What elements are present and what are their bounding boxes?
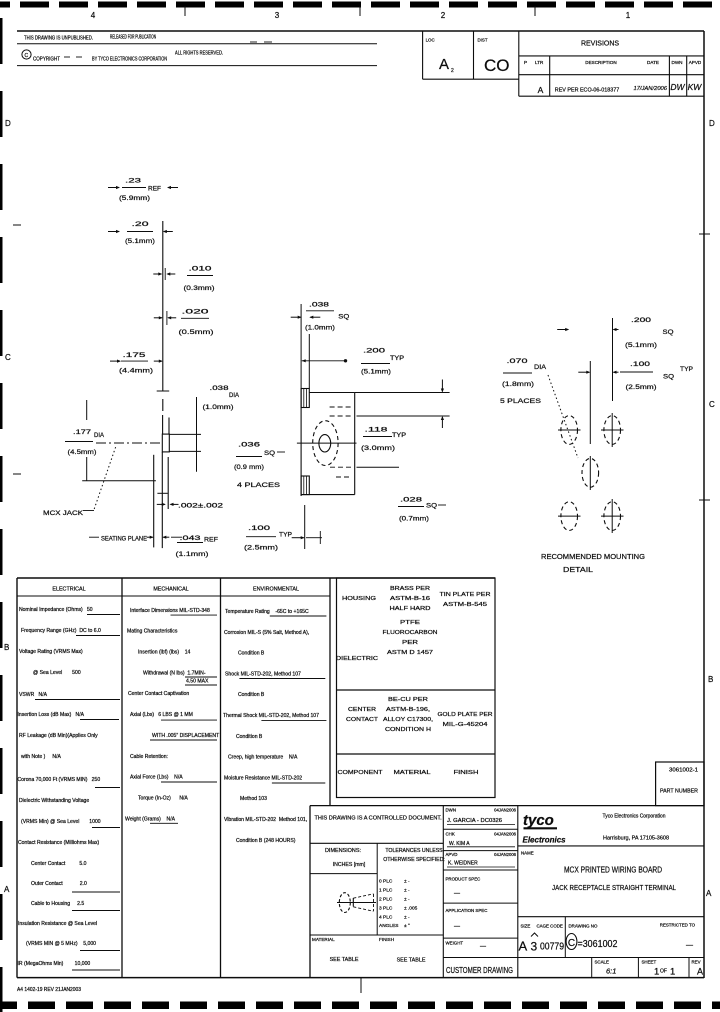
svg-text:TOLERANCES UNLESS: TOLERANCES UNLESS xyxy=(385,848,443,854)
svg-text:A: A xyxy=(439,56,449,73)
svg-text:(4.4mm): (4.4mm) xyxy=(119,368,153,375)
svg-text:SEE TABLE: SEE TABLE xyxy=(330,957,359,963)
svg-text:Axial Force (Lbs) N/A: Axial Force (Lbs) N/A xyxy=(130,775,183,781)
svg-text:DIMENSIONS:: DIMENSIONS: xyxy=(325,848,361,854)
svg-text:SIZE: SIZE xyxy=(521,924,531,929)
svg-text:SQ: SQ xyxy=(264,450,275,457)
spec table outer/column lines xyxy=(17,577,495,579)
svg-text:—: — xyxy=(454,891,460,897)
svg-text:SEE TABLE: SEE TABLE xyxy=(397,958,426,964)
svg-text:.20: .20 xyxy=(132,221,149,228)
svg-text:REV: REV xyxy=(692,960,701,965)
svg-text:1: 1 xyxy=(654,967,659,978)
svg-text:3: 3 xyxy=(531,940,538,954)
svg-text:DETAIL: DETAIL xyxy=(563,565,593,574)
middle view: hidden + solid line .118 lower xyxy=(330,415,351,417)
left view: pin below nut xyxy=(161,452,163,509)
svg-text:Cable to Housing 2.5: Cable to Housing 2.5 xyxy=(31,901,84,907)
svg-text:REF: REF xyxy=(204,537,218,544)
svg-text:WEIGHT: WEIGHT xyxy=(446,941,464,946)
svg-text:SQ: SQ xyxy=(663,374,674,381)
svg-text:(VRMS MIN @ 5 MHz) 5,000: (VRMS MIN @ 5 MHz) 5,000 xyxy=(26,941,96,947)
left view: dash-dot centerline horizontal xyxy=(96,442,162,444)
svg-text:PART NUMBER: PART NUMBER xyxy=(660,789,698,795)
middle view: pin edge extension lines xyxy=(300,304,302,389)
middle view: extension line top xyxy=(355,392,450,394)
svg-text:COPYRIGHT: COPYRIGHT xyxy=(33,57,61,63)
svg-text:Moisture Resistance MIL-STD-20: Moisture Resistance MIL-STD-202 xyxy=(224,775,302,781)
svg-text:SQ: SQ xyxy=(663,329,674,336)
material / finish cells xyxy=(310,934,443,936)
svg-text:RF Leakage (dB Min)(Applies On: RF Leakage (dB Min)(Applies Only xyxy=(19,733,98,739)
svg-text:CAGE CODE: CAGE CODE xyxy=(537,924,563,929)
right view: hole top-left xyxy=(561,416,578,445)
scan border dashes left xyxy=(0,18,3,64)
svg-text:APPLICATION SPEC: APPLICATION SPEC xyxy=(446,908,488,913)
left view: hex nut cross-section xyxy=(162,434,169,452)
part number box xyxy=(656,762,704,806)
svg-text:OTHERWISE SPECIFIED:: OTHERWISE SPECIFIED: xyxy=(383,857,445,863)
svg-text:.100: .100 xyxy=(248,525,270,532)
svg-text:W. KIM A: W. KIM A xyxy=(449,841,470,847)
svg-text:TIN PLATE PER: TIN PLATE PER xyxy=(440,592,491,598)
svg-text:00779: 00779 xyxy=(540,942,564,953)
svg-text:MATERIAL: MATERIAL xyxy=(394,770,432,776)
svg-text:PER: PER xyxy=(402,640,418,646)
svg-text:Condition B: Condition B xyxy=(238,651,265,657)
svg-text:17/JAN/2006: 17/JAN/2006 xyxy=(633,86,667,92)
svg-text:Vibration MIL-STD-202 Method: Vibration MIL-STD-202 Method 101, xyxy=(224,817,307,823)
svg-text:DIA: DIA xyxy=(229,392,239,399)
svg-text:Temperature Rating -65C to: Temperature Rating -65C to +165C xyxy=(225,609,309,615)
svg-text:JACK RECEPTACLE STRAIGHT TERMI: JACK RECEPTACLE STRAIGHT TERMINAL xyxy=(552,883,676,892)
svg-text:GOLD PLATE PER: GOLD PLATE PER xyxy=(438,712,493,718)
svg-text:.002±.002: .002±.002 xyxy=(178,503,224,510)
svg-text:HALF HARD: HALF HARD xyxy=(390,606,431,612)
svg-text:Method 103: Method 103 xyxy=(240,796,267,802)
left view: dim .002 +/- .002 xyxy=(157,503,165,505)
svg-text:± °: ± ° xyxy=(404,923,410,929)
svg-text:Voltage Rating (VRMS Max): Voltage Rating (VRMS Max) xyxy=(19,649,83,655)
svg-text:ALLOY C17300,: ALLOY C17300, xyxy=(383,717,433,723)
right view: dim .200 SQ (5.1mm) xyxy=(557,329,568,331)
svg-text:Center Contact 5.0: Center Contact 5.0 xyxy=(31,861,87,867)
svg-text:ENVIRONMENTAL: ENVIRONMENTAL xyxy=(253,587,299,593)
svg-text:CHK: CHK xyxy=(446,832,455,837)
svg-text:5 PLACES: 5 PLACES xyxy=(500,398,542,405)
svg-text:Interface Dimensions MIL-STD-3: Interface Dimensions MIL-STD-348 xyxy=(130,608,210,614)
svg-text:NAME: NAME xyxy=(521,851,534,856)
svg-text:INCHES [mm]: INCHES [mm] xyxy=(333,862,366,868)
svg-text:BRASS PER: BRASS PER xyxy=(390,586,430,592)
svg-text:(0.3mm): (0.3mm) xyxy=(184,285,215,292)
svg-text:Condition B: Condition B xyxy=(238,692,265,698)
middle view: bottom pin through PCB xyxy=(301,476,309,495)
svg-text:TYP: TYP xyxy=(680,366,693,373)
svg-text:Condition B: Condition B xyxy=(236,734,263,740)
svg-text:.118: .118 xyxy=(365,427,388,434)
svg-text:RECOMMENDED MOUNTING: RECOMMENDED MOUNTING xyxy=(541,552,645,561)
svg-text:.036: .036 xyxy=(238,442,260,449)
middle view: center socket ellipse xyxy=(319,435,331,452)
svg-text:Center Contact Captivation: Center Contact Captivation xyxy=(128,691,189,697)
svg-text:(3.0mm): (3.0mm) xyxy=(361,445,395,452)
svg-text:Nominal Impedance (Ohms) 50: Nominal Impedance (Ohms) 50 xyxy=(19,607,93,613)
SEATING PLANE label and dim .043 REF xyxy=(89,536,99,538)
svg-text:(0.5mm): (0.5mm) xyxy=(179,329,214,336)
scan border dashes bottom xyxy=(0,1002,17,1010)
right view: dim .100 SQ TYP (2.5mm) xyxy=(578,371,589,373)
svg-text:C: C xyxy=(709,400,715,409)
svg-text:P: P xyxy=(524,60,527,65)
middle view: dim .118 TYP (3.0mm) arrows xyxy=(441,380,443,392)
svg-text:TYP: TYP xyxy=(390,355,404,362)
svg-text:Insertion Loss (dB Max) N/A: Insertion Loss (dB Max) N/A xyxy=(18,712,85,718)
svg-text:VSWR N/A: VSWR N/A xyxy=(19,692,48,698)
svg-text:FINISH: FINISH xyxy=(454,770,479,776)
svg-text:.100: .100 xyxy=(630,361,650,368)
middle view: dim .200 TYP (5.1mm) xyxy=(304,360,347,362)
svg-text:APVD: APVD xyxy=(689,60,702,65)
svg-text:Mating Characteristics: Mating Characteristics xyxy=(127,629,178,635)
svg-text:3 PLC: 3 PLC xyxy=(379,905,393,911)
svg-text:04JAN2006: 04JAN2006 xyxy=(494,852,517,857)
svg-text:TYP: TYP xyxy=(279,532,292,539)
svg-text:1 PLC: 1 PLC xyxy=(379,888,393,894)
title block outer xyxy=(310,805,704,807)
svg-text:D: D xyxy=(709,119,715,128)
svg-text:@ Sea Level 500: @ Sea Level 500 xyxy=(33,670,81,676)
svg-text:SQ: SQ xyxy=(338,314,349,321)
svg-text:Tyco Electronics Corporation: Tyco Electronics Corporation xyxy=(603,814,666,820)
svg-text:PRODUCT SPEC: PRODUCT SPEC xyxy=(446,877,481,882)
svg-text:CENTER: CENTER xyxy=(348,707,376,713)
header: copyright row xyxy=(22,50,31,59)
svg-text:(1.1mm): (1.1mm) xyxy=(176,551,209,558)
svg-text:.038: .038 xyxy=(309,302,329,309)
svg-text:DIA: DIA xyxy=(94,432,104,439)
svg-text:C: C xyxy=(25,53,29,59)
dimensions cell xyxy=(376,843,378,935)
svg-text:LTR: LTR xyxy=(535,60,544,65)
left view: seating plane line xyxy=(82,480,156,482)
svg-text:Contact Resistance (Milliohms: Contact Resistance (Milliohms Max) xyxy=(18,840,100,846)
svg-text:± -: ± - xyxy=(404,888,410,894)
svg-text:D: D xyxy=(5,119,11,128)
svg-text:(4.5mm): (4.5mm) xyxy=(68,449,97,456)
svg-text:=3061002: =3061002 xyxy=(578,939,618,950)
svg-text:DW: DW xyxy=(670,82,685,92)
left view: dim .038 DIA leader xyxy=(169,433,201,435)
svg-text:DATE: DATE xyxy=(647,60,659,65)
svg-text:DWN: DWN xyxy=(446,808,457,813)
left view: body outline xyxy=(153,455,155,548)
revisions block box lines xyxy=(422,31,424,79)
svg-text:(5.9mm): (5.9mm) xyxy=(119,195,150,202)
drawing frame bottom xyxy=(17,977,704,979)
scan border dashes top xyxy=(0,2,10,8)
svg-text:C: C xyxy=(5,353,11,362)
svg-text:4 PLC: 4 PLC xyxy=(379,914,393,920)
svg-text:Thermal Shock MIL-STD-202, Met: Thermal Shock MIL-STD-202, Method 107 xyxy=(223,713,319,719)
svg-text:MCX PRINTED WIRING BOARD: MCX PRINTED WIRING BOARD xyxy=(564,866,662,875)
svg-text:2: 2 xyxy=(451,68,454,74)
svg-text:B: B xyxy=(708,675,713,684)
svg-text:MIL-G-45204: MIL-G-45204 xyxy=(443,722,489,728)
svg-text:Axial (Lbs) 6 LBS @ 1 MM: Axial (Lbs) 6 LBS @ 1 MM xyxy=(130,712,193,718)
svg-text:4.50 MAX: 4.50 MAX xyxy=(186,679,209,685)
svg-text:ASTM-B-545: ASTM-B-545 xyxy=(443,602,487,608)
zone ticks left/right xyxy=(13,224,21,226)
svg-text:1: 1 xyxy=(670,967,675,978)
svg-text:MATERIAL: MATERIAL xyxy=(312,937,335,942)
svg-text:ELECTRICAL: ELECTRICAL xyxy=(52,587,85,593)
signature column rows xyxy=(443,828,518,830)
materials table box xyxy=(337,578,496,798)
svg-text:(5.1mm): (5.1mm) xyxy=(625,342,657,349)
svg-text:.175: .175 xyxy=(123,352,146,359)
right view: hole bottom-right xyxy=(604,502,621,531)
svg-text:MECHANICAL: MECHANICAL xyxy=(153,587,188,593)
svg-text:FLUOROCARBON: FLUOROCARBON xyxy=(383,630,438,636)
svg-text:(1.0mm): (1.0mm) xyxy=(305,325,335,332)
svg-text:Torque (In-Oz) N/A: Torque (In-Oz) N/A xyxy=(138,796,188,802)
svg-text:(1.8mm): (1.8mm) xyxy=(502,381,534,388)
third angle projection symbol xyxy=(339,893,350,913)
svg-text:CONDITION H: CONDITION H xyxy=(385,727,431,733)
drawing frame right xyxy=(703,31,705,978)
svg-text:.028: .028 xyxy=(400,497,422,504)
svg-text:A: A xyxy=(706,889,712,898)
svg-text:RESTRICTED TO: RESTRICTED TO xyxy=(660,923,696,928)
svg-text:.23: .23 xyxy=(125,178,141,185)
svg-text:—: — xyxy=(480,944,486,950)
svg-text:A: A xyxy=(4,885,10,894)
svg-text:DIST: DIST xyxy=(478,38,488,43)
svg-text:PTFE: PTFE xyxy=(400,620,420,626)
svg-text:± -: ± - xyxy=(404,879,410,885)
svg-text:ANGLES: ANGLES xyxy=(379,923,398,929)
svg-text:A: A xyxy=(519,939,528,954)
svg-text:04JAN2006: 04JAN2006 xyxy=(494,808,517,813)
svg-text:.020: .020 xyxy=(182,309,209,316)
svg-text:A: A xyxy=(538,85,544,95)
svg-text:Weight (Grams) N/A: Weight (Grams) N/A xyxy=(125,817,176,823)
svg-text:Condition B (248 HOURS): Condition B (248 HOURS) xyxy=(236,838,296,844)
svg-text:DWN: DWN xyxy=(672,60,683,65)
svg-text:.043: .043 xyxy=(180,535,201,542)
svg-text:± -: ± - xyxy=(404,897,410,903)
svg-text:FINISH: FINISH xyxy=(379,937,394,942)
svg-text:.200: .200 xyxy=(363,348,385,355)
zone ticks top xyxy=(184,6,186,16)
middle view: top pin through PCB xyxy=(301,389,309,408)
svg-text:(5.1mm): (5.1mm) xyxy=(361,369,391,376)
svg-text:Corrosion MIL-S (5% Salt, Meth: Corrosion MIL-S (5% Salt, Method A), xyxy=(224,630,309,636)
svg-text:CO: CO xyxy=(484,56,510,75)
svg-text:2 PLC: 2 PLC xyxy=(379,897,393,903)
svg-text:OF: OF xyxy=(660,969,667,975)
svg-text:ASTM D 1457: ASTM D 1457 xyxy=(387,650,433,656)
left view: dim .177 DIA (4.5mm) xyxy=(86,400,88,420)
svg-text:with Note ) N/A: with Note ) N/A xyxy=(21,754,62,760)
svg-text:.038: .038 xyxy=(210,385,229,392)
drawing frame top xyxy=(17,30,704,32)
svg-text:ASTM-B-196,: ASTM-B-196, xyxy=(386,707,430,713)
svg-text:Cable Retention:: Cable Retention: xyxy=(130,754,168,760)
left view: terminal pin xyxy=(162,415,164,434)
svg-text:MCX JACK: MCX JACK xyxy=(43,510,84,517)
svg-text:1: 1 xyxy=(626,11,631,20)
svg-text:BE-CU PER: BE-CU PER xyxy=(388,697,428,703)
customer drawing / scale row xyxy=(443,957,704,959)
svg-text:DIELECTRIC: DIELECTRIC xyxy=(336,656,378,662)
left view: terminal centerline xyxy=(162,221,164,391)
middle view: centerline through hole xyxy=(297,442,357,444)
svg-text:BY TYCO ELECTRONICS CORPORATIO: BY TYCO ELECTRONICS CORPORATION xyxy=(92,57,167,63)
right view: hole bottom-left xyxy=(561,502,578,531)
svg-text:THIS DRAWING IS UNPUBLISHED.: THIS DRAWING IS UNPUBLISHED. xyxy=(24,36,93,42)
svg-text:(2.5mm): (2.5mm) xyxy=(626,384,657,391)
svg-text:A: A xyxy=(697,967,703,977)
svg-text:IR (MegaOhms Min) 10,00: IR (MegaOhms Min) 10,000 xyxy=(18,961,91,967)
middle view: body outline xyxy=(309,392,354,394)
svg-text:J. GARCIA - DC0326: J. GARCIA - DC0326 xyxy=(447,818,502,824)
svg-text:Insertion (lbf) (lbs) 14: Insertion (lbf) (lbs) 14 xyxy=(138,650,191,656)
svg-text:—: — xyxy=(686,942,693,949)
right view: hole center xyxy=(582,458,599,487)
svg-text:REV PER ECO-06-018377: REV PER ECO-06-018377 xyxy=(555,88,619,94)
svg-text:.200: .200 xyxy=(631,317,651,324)
svg-text:Creep, high temperature N/A: Creep, high temperature N/A xyxy=(228,755,298,761)
svg-text:SEATING PLANE: SEATING PLANE xyxy=(101,536,147,543)
svg-text:K. WEIDNER: K. WEIDNER xyxy=(448,861,478,867)
svg-text:ALL RIGHTS RESERVED.: ALL RIGHTS RESERVED. xyxy=(175,51,223,57)
svg-text:A4 1402-19 REV 21JAN2003: A4 1402-19 REV 21JAN2003 xyxy=(17,987,81,993)
tyco electronics logo cell xyxy=(518,845,704,847)
svg-text:WITH .005" DISPLACEMENT: WITH .005" DISPLACEMENT xyxy=(152,733,219,739)
svg-text:± .005: ± .005 xyxy=(404,905,418,911)
svg-text:(2.5mm): (2.5mm) xyxy=(244,545,278,552)
svg-text:(VRMS Min) @ Sea Level 1: (VRMS Min) @ Sea Level 1000 xyxy=(21,819,101,825)
svg-text:DRAWING NO: DRAWING NO xyxy=(569,924,598,929)
middle view: hidden hole ellipse xyxy=(313,421,338,466)
svg-text:DESCRIPTION: DESCRIPTION xyxy=(585,60,616,65)
middle view: hidden lines xyxy=(330,406,351,408)
svg-text:.010: .010 xyxy=(189,266,212,273)
svg-text:Electronics: Electronics xyxy=(523,836,567,845)
svg-text:2: 2 xyxy=(441,11,446,20)
svg-text:C: C xyxy=(568,938,575,949)
svg-text:Harrisburg, PA 17105-3608: Harrisburg, PA 17105-3608 xyxy=(603,836,669,842)
svg-text:.177: .177 xyxy=(73,429,91,436)
svg-text:TYP: TYP xyxy=(392,432,406,439)
svg-text:3: 3 xyxy=(275,11,280,20)
svg-text:SHEET: SHEET xyxy=(642,960,657,965)
svg-text:THIS DRAWING IS A CONTROLLED D: THIS DRAWING IS A CONTROLLED DOCUMENT. xyxy=(315,816,443,822)
svg-text:± -: ± - xyxy=(404,914,410,920)
svg-text:Frequency Range (GHz) DC to 6: Frequency Range (GHz) DC to 6.0 xyxy=(21,628,101,634)
svg-text:—: — xyxy=(454,924,460,930)
size / cage / drawing no row xyxy=(518,916,704,918)
svg-text:tyco: tyco xyxy=(523,812,554,829)
svg-text:SCALE: SCALE xyxy=(595,960,609,965)
svg-text:DIA: DIA xyxy=(534,364,546,371)
svg-text:6:1: 6:1 xyxy=(606,967,616,976)
svg-text:0 PLC: 0 PLC xyxy=(379,879,393,885)
svg-text:APVD: APVD xyxy=(446,852,458,857)
middle view: PCB edge vertical xyxy=(300,389,302,497)
svg-text:4 PLACES: 4 PLACES xyxy=(237,482,281,489)
svg-text:(1.0mm): (1.0mm) xyxy=(203,404,234,411)
svg-text:(5.1mm): (5.1mm) xyxy=(125,238,155,245)
svg-text:Shock MIL-STD-202, Method 107: Shock MIL-STD-202, Method 107 xyxy=(225,671,301,677)
zone tick bottom xyxy=(360,978,362,993)
svg-text:Outer Contact 2.0: Outer Contact 2.0 xyxy=(31,881,87,887)
svg-text:REF: REF xyxy=(148,186,161,193)
right view: grid verticals xyxy=(589,361,591,444)
middle view: dim .100 TYP (2.5mm) xyxy=(304,505,306,549)
svg-text:(0.7mm): (0.7mm) xyxy=(399,516,429,523)
svg-text:SQ: SQ xyxy=(426,503,437,510)
svg-text:COMPONENT: COMPONENT xyxy=(338,770,384,776)
svg-text:3061002-1: 3061002-1 xyxy=(669,768,698,774)
svg-text:CUSTOMER DRAWING: CUSTOMER DRAWING xyxy=(446,966,513,975)
svg-text:CONTACT: CONTACT xyxy=(346,717,379,723)
svg-text:Dielectric Withstanding Voltag: Dielectric Withstanding Voltage xyxy=(19,798,89,804)
svg-text:Corona 70,000 Ft (VRMS MIN): Corona 70,000 Ft (VRMS MIN) 250 xyxy=(18,777,101,783)
svg-text:Insulation Resistance @ Sea Le: Insulation Resistance @ Sea Level xyxy=(18,921,97,927)
right view: hole top-right xyxy=(604,416,621,445)
svg-text:KW: KW xyxy=(688,82,703,92)
svg-text:B: B xyxy=(4,643,9,652)
svg-text:LOC: LOC xyxy=(426,38,435,43)
svg-text:RELEASED FOR PUBLICATION: RELEASED FOR PUBLICATION xyxy=(110,35,156,41)
svg-text:ASTM-B-16: ASTM-B-16 xyxy=(390,596,430,602)
svg-text:Withdrawal (N lbs) 1.7MIN-: Withdrawal (N lbs) 1.7MIN- xyxy=(143,671,206,677)
svg-text:04JAN2006: 04JAN2006 xyxy=(494,832,517,837)
svg-text:4: 4 xyxy=(91,11,96,20)
svg-text:(0.9 mm): (0.9 mm) xyxy=(234,464,264,471)
svg-text:.070: .070 xyxy=(507,358,528,365)
svg-text:REVISIONS: REVISIONS xyxy=(581,41,619,48)
svg-text:HOUSING: HOUSING xyxy=(342,596,377,602)
